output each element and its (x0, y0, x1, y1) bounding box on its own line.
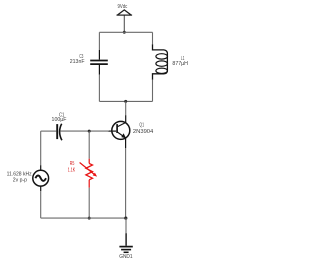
wire C1 to base node (60, 130, 109, 132)
wire right tank branch lower (152, 80, 154, 102)
wire R5 down to bottom rail (88, 188, 90, 218)
junction dot supply to top rail (123, 31, 126, 34)
inductor L1 (153, 44, 168, 79)
wire AC source to C1 (41, 130, 57, 132)
wire AC source bottom (40, 191, 42, 218)
svg-text:877µH: 877µH (172, 61, 188, 67)
junction dot base node to R5 (88, 130, 91, 133)
wire bottom tank rail (99, 100, 152, 102)
svg-text:100µF: 100µF (52, 117, 67, 123)
svg-text:2N3904: 2N3904 (133, 129, 154, 135)
svg-text:Q1: Q1 (139, 122, 144, 128)
wire left tank branch upper (98, 32, 100, 50)
power supply arrow symbol (117, 10, 133, 32)
svg-text:GND1: GND1 (119, 254, 132, 260)
AC source symbol (33, 165, 49, 191)
resistor R5 labels (red) (68, 161, 76, 173)
wire top rail (99, 31, 152, 33)
wire bottom rail (41, 217, 126, 219)
svg-text:9Vdc: 9Vdc (118, 4, 128, 10)
capacitor C3 (90, 50, 108, 75)
wire right tank branch upper (152, 32, 154, 44)
capacitor C3 label (70, 54, 85, 65)
resistor R5 variable, red (80, 159, 94, 188)
svg-text:1.1K: 1.1K (68, 167, 76, 173)
junction dot tank tap to collector (124, 100, 127, 103)
wire collector (125, 101, 127, 115)
inductor L1 label (172, 56, 188, 67)
wire left tank branch lower (98, 75, 100, 102)
transistor Q1 2N3904 (108, 115, 130, 148)
capacitor C1 label (52, 112, 67, 123)
svg-text:R5: R5 (70, 161, 75, 167)
junction dot R5 bottom (88, 217, 91, 220)
wire AC source top (40, 131, 42, 165)
AC source V1 labels (7, 171, 33, 183)
transistor Q1 label (133, 122, 154, 135)
svg-text:213nF: 213nF (70, 59, 85, 65)
transistor Q1 emitter arrowhead (121, 133, 126, 138)
wire base node down to R5 (88, 131, 90, 159)
junction dot ground tap (124, 217, 127, 220)
capacitor C1 polarized (57, 124, 62, 141)
ground GND1 symbol (119, 233, 132, 252)
resistor R5 arrowhead (93, 173, 97, 177)
svg-text:11.628 kHz: 11.628 kHz (7, 171, 33, 177)
wire emitter down (125, 148, 127, 218)
wire down to ground (125, 218, 127, 233)
svg-text:2v p-p: 2v p-p (13, 178, 27, 184)
